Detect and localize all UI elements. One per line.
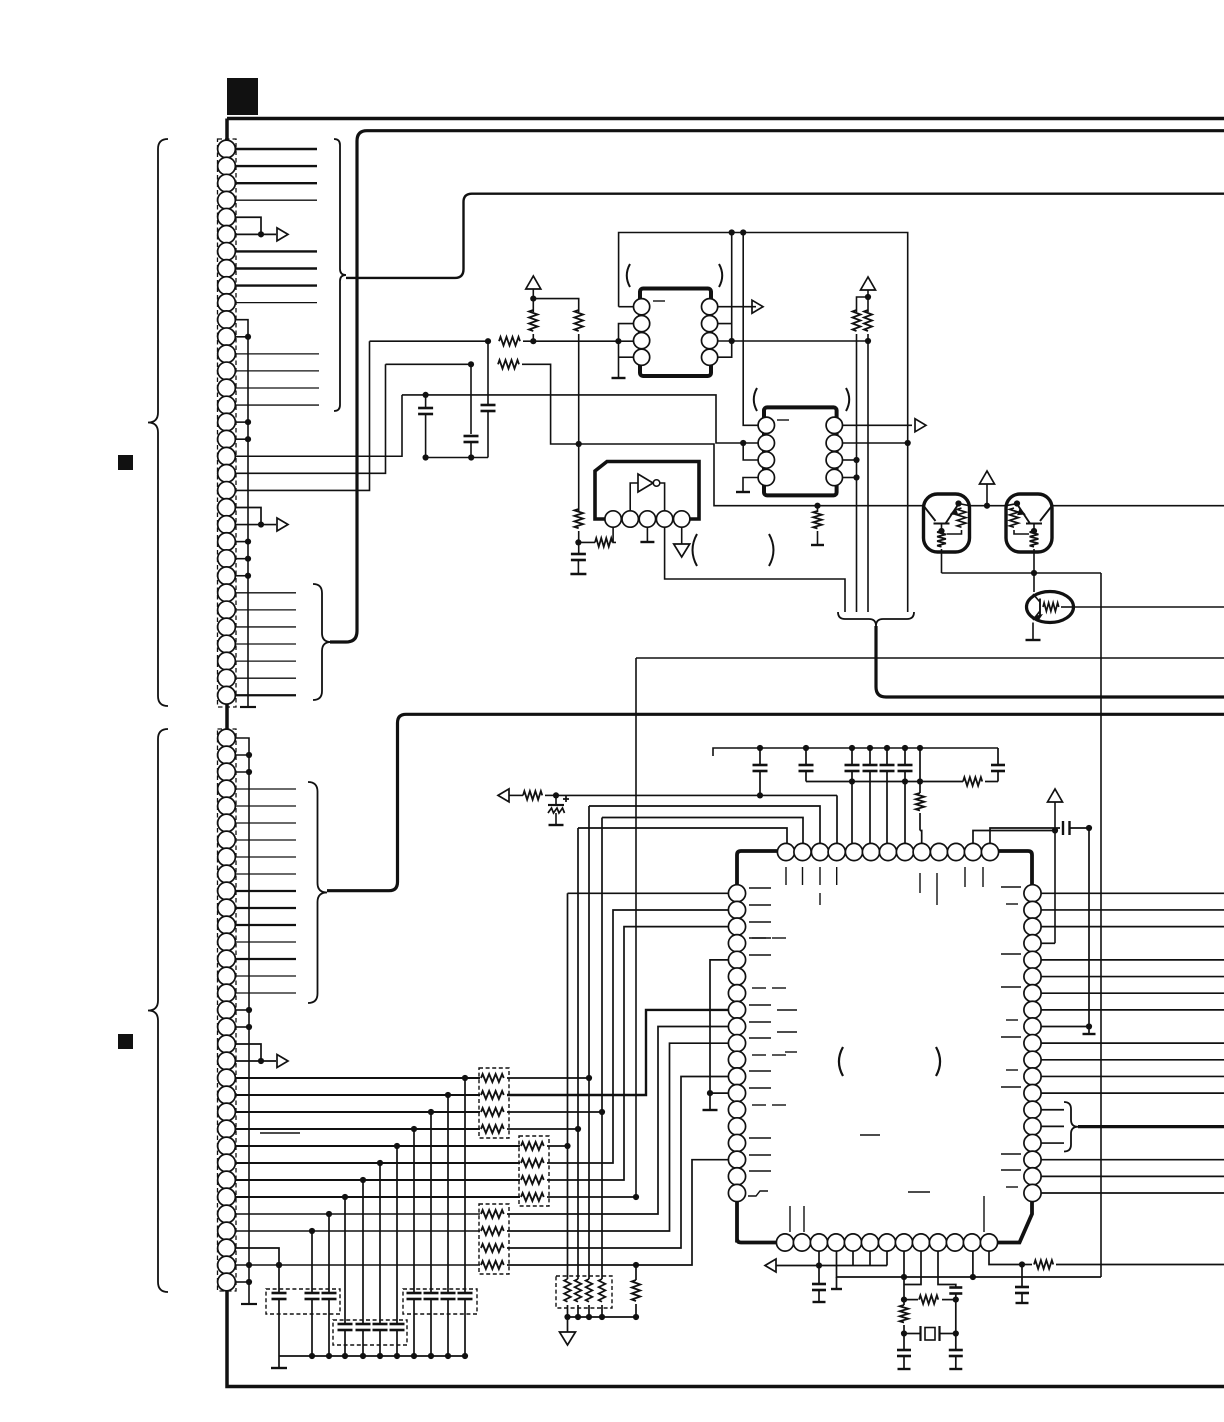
microcontroller U1 body bbox=[737, 851, 1032, 1243]
net N658 wire bbox=[636, 657, 1224, 659]
reset IC X1 package bbox=[595, 462, 699, 520]
CN1 pin2 wire bbox=[235, 165, 317, 167]
CN1 pin11/12 tie, vertical rail to terminator bbox=[235, 320, 248, 707]
cap bank CB1 (dashed) bbox=[266, 1289, 340, 1314]
power flag V2 bbox=[861, 277, 876, 290]
ground arrow G7 bbox=[674, 544, 690, 557]
CN1 pin1 wire bbox=[235, 148, 317, 150]
ground G8 bbox=[811, 544, 824, 546]
transistor Q1 (digital) bbox=[924, 494, 970, 552]
CN2 pin7 wire bbox=[235, 839, 296, 841]
oscillator left rail (pin8) bbox=[903, 1251, 905, 1300]
RN3 output wires bbox=[507, 1027, 729, 1215]
crystal X2 bbox=[904, 1333, 920, 1335]
capacitor x=465 bbox=[464, 1078, 466, 1293]
IC1 pin3R net to resistor pair bbox=[718, 340, 868, 342]
arrow A1 (ref out) bbox=[765, 1259, 776, 1272]
capacitor C3 bbox=[571, 553, 586, 556]
brace CN1 sub-group B bbox=[313, 584, 331, 700]
wire U1 right pin10 bbox=[1041, 1042, 1224, 1044]
wire V1 to R4 bbox=[533, 299, 578, 312]
page border bbox=[227, 119, 1224, 1387]
ground G6 bbox=[640, 541, 654, 543]
IC2 pin3R wire bbox=[843, 459, 857, 461]
wire CN2 row y=1129 bbox=[235, 1128, 480, 1130]
wire CN2 pin31 row to cap rail bbox=[235, 1248, 279, 1265]
U1 pin9 jog bbox=[904, 1251, 921, 1285]
wire CN2 row y=1146 bbox=[235, 1145, 520, 1147]
IC1 output arrow bbox=[718, 306, 756, 308]
wire U1 right pin11 bbox=[1041, 1059, 1224, 1061]
wire CN2 row y=1180 bbox=[235, 1179, 520, 1181]
wire U1 right pin3 bbox=[1041, 926, 1224, 928]
ground G2 bbox=[278, 1356, 280, 1368]
bold bus from BR1 bbox=[1078, 1125, 1224, 1128]
wire CN2 row y=1197 bbox=[235, 1196, 520, 1198]
CN1 pin13 wire bbox=[235, 353, 319, 355]
IC1 pins left bbox=[634, 299, 650, 315]
IC2 label parens bbox=[754, 388, 757, 411]
U1 pin12 lead bbox=[972, 1251, 974, 1277]
resistor network RN1 (dashed) bbox=[479, 1068, 509, 1138]
wire top pin9 bbox=[920, 831, 922, 844]
ground G12 bbox=[1088, 1027, 1090, 1034]
wire CN2 row y=1214 bbox=[235, 1213, 480, 1215]
wire U1 right pin7 bbox=[1041, 992, 1224, 994]
resistor R3 bbox=[529, 310, 538, 331]
wire U1 right pin2 bbox=[1041, 909, 1224, 911]
capacitor x=448 bbox=[447, 1095, 449, 1293]
cap bank common bus bbox=[279, 1355, 465, 1357]
net x636 vertical bbox=[635, 658, 637, 1197]
ground G13 bbox=[813, 1301, 826, 1303]
IC2 pin2R wire bbox=[843, 442, 908, 444]
section marker square 2 bbox=[118, 1034, 133, 1049]
IC2 pin4R wire bbox=[843, 477, 857, 479]
wire CN1 pin21 to net N341 bbox=[235, 341, 370, 490]
connector CN2 dashed outline bbox=[218, 729, 237, 1291]
U1 left pins bbox=[728, 885, 745, 902]
CN2 pin9 wire bbox=[235, 873, 296, 875]
capacitor x=363 bbox=[362, 1180, 364, 1324]
X1 output wire to QFP region bbox=[665, 527, 845, 612]
CN2 pin12 wire bbox=[235, 924, 296, 926]
wire CN2 row y=1163 bbox=[235, 1162, 520, 1164]
IC2 pin4 ground bbox=[743, 478, 758, 493]
ground G14 bbox=[898, 1368, 911, 1370]
resistor R2 bbox=[498, 360, 519, 369]
wire U1 right pin12 bbox=[1041, 1075, 1224, 1077]
CN1 pin27 wire bbox=[235, 592, 296, 594]
wire CN2 row y=1078 bbox=[235, 1077, 480, 1079]
connector CN2 pins bbox=[218, 729, 236, 747]
op-amp IC1 package bbox=[640, 289, 711, 377]
brace CN2 sub-group (to bus B3) bbox=[308, 782, 327, 1003]
resistor R7 bbox=[864, 310, 872, 331]
electrolytic capacitor C4 bbox=[555, 795, 557, 805]
CN2 pin6 wire bbox=[235, 822, 296, 824]
CN1 pin22/23 strap to test point arrow bbox=[235, 507, 276, 524]
wire CN1 pin20 to net N364 bbox=[235, 364, 386, 473]
wire U1 right pin8 bbox=[1041, 1009, 1224, 1011]
net N795 (ref) arrow+resistor bbox=[498, 789, 509, 802]
Q3 emitter ground bbox=[1032, 623, 1034, 641]
CN1 pin17 stub bbox=[235, 421, 248, 423]
sheet index black square bbox=[227, 78, 258, 115]
CN1 pin14 wire bbox=[235, 370, 319, 372]
ground stub G18 bbox=[836, 1277, 838, 1288]
section marker square 1 bbox=[118, 455, 133, 470]
ground G5 bbox=[736, 491, 750, 493]
CN1 pin26 stub bbox=[235, 575, 248, 577]
wire CN2 row y=1095 bbox=[235, 1094, 480, 1096]
capacitor C1 bbox=[487, 341, 489, 405]
brace CN1 sub-group A bbox=[334, 139, 346, 411]
capacitor x=380 bbox=[379, 1163, 381, 1324]
X1 label parens bbox=[693, 534, 697, 566]
brace CN2 group (left) bbox=[148, 729, 168, 1292]
CN1 pin3 wire bbox=[235, 182, 317, 184]
wire U1 right pin6 bbox=[1041, 976, 1224, 978]
wire V4 to right pin4 bbox=[1041, 942, 1055, 944]
RN1 output wires bbox=[507, 1077, 589, 1079]
RN4 common bus and ground bbox=[568, 1304, 637, 1317]
capacitor C12 bbox=[990, 828, 1060, 843]
under-brace BU1 (4 nets) bbox=[838, 612, 914, 626]
wire RN1-B to IC pin (bold) bbox=[507, 1010, 729, 1095]
Q1 base wire bbox=[941, 552, 943, 573]
CN1 pin33 wire bbox=[235, 694, 296, 696]
CN2 pin15 wire bbox=[235, 975, 296, 977]
resistor network RN3 (dashed) bbox=[479, 1204, 509, 1274]
wire U1 right pin13 bbox=[1041, 1092, 1224, 1094]
U1 top pins bbox=[777, 843, 794, 860]
X1 pin4 from inverter output bbox=[660, 483, 665, 511]
ground G4 bbox=[612, 377, 626, 379]
ground G10 bbox=[549, 824, 564, 826]
capacitor C14 bbox=[903, 1334, 905, 1351]
capacitor x=414 bbox=[413, 1129, 415, 1293]
capacitor x=329 bbox=[328, 1214, 330, 1293]
U1 right pins bbox=[1024, 885, 1041, 902]
wire U1 right pin18 bbox=[1041, 1175, 1224, 1177]
op-amp IC2 package bbox=[764, 407, 837, 495]
resistor R20 bbox=[635, 1265, 637, 1280]
resistor network RN2 (dashed) bbox=[519, 1136, 549, 1206]
bus wire net B2 (thin, from CN1 brace A) bbox=[346, 194, 1224, 278]
bus wire net B3 (thick, from CN2 brace) bbox=[327, 714, 1224, 890]
wire U1 right pin9 to ground bbox=[1041, 1026, 1089, 1028]
CN2 pin10 wire bbox=[235, 890, 296, 892]
CN2 pins1-3 tie rail R (to terminator) bbox=[235, 738, 249, 1304]
power flag V3 bbox=[980, 471, 995, 484]
CN2 pin16 wire bbox=[235, 992, 296, 994]
brace CN1 group (left) bbox=[148, 139, 168, 706]
wire CN2 row y=1265 bbox=[235, 1264, 480, 1266]
CN1 pin32 wire bbox=[235, 677, 296, 679]
net N364 input wire bbox=[386, 363, 472, 365]
pull-up rail verticals to QFP bbox=[568, 893, 730, 1279]
CN1 pin24 stub bbox=[235, 541, 248, 543]
CN2 pin13 wire bbox=[235, 941, 296, 943]
IC1 pin2R feedback drop bbox=[718, 233, 732, 324]
base bus wire bbox=[942, 572, 1102, 574]
ground G3 bbox=[570, 573, 586, 575]
CN1 pin8 wire bbox=[235, 267, 317, 269]
CN2 pin19/20 strap to test point arrow bbox=[235, 1044, 276, 1061]
CN2 pin33 stub bbox=[235, 1281, 249, 1283]
wire U1 right pin1 bbox=[1041, 892, 1224, 894]
capacitor C x=905 bbox=[902, 745, 908, 751]
ground arrow G1 bbox=[567, 1317, 569, 1332]
U1 bottom pins bbox=[776, 1234, 793, 1251]
connector CN1 pins bbox=[218, 140, 236, 158]
resistor R13 bbox=[904, 1299, 918, 1301]
CN1 pin15 wire bbox=[235, 387, 319, 389]
CN1 pin28 wire bbox=[235, 609, 296, 611]
wire CN2 row y=1231 bbox=[235, 1230, 480, 1232]
net N457 bus bbox=[426, 457, 488, 459]
net N394 wire to IC2 bbox=[402, 395, 743, 443]
CN1 pin25 stub bbox=[235, 558, 248, 560]
CN1 pin4 wire bbox=[235, 199, 317, 201]
capacitor C15a (rail) bbox=[949, 1286, 962, 1289]
X1 pin5 ground arrow bbox=[681, 527, 683, 544]
resistor R1 bbox=[499, 337, 520, 346]
capacitor C13 bbox=[818, 1266, 820, 1285]
U1 pin number dashes bbox=[785, 867, 787, 885]
connector CN1 dashed outline bbox=[218, 139, 237, 707]
CN1 pin29 wire bbox=[235, 626, 296, 628]
ground G15 bbox=[949, 1368, 962, 1370]
Q2 base wire bbox=[1033, 552, 1035, 573]
U1 bottom pin5/6 stubs bbox=[852, 1251, 854, 1266]
capacitor x=431 bbox=[430, 1112, 432, 1293]
resistor R12 bbox=[919, 782, 921, 794]
IC1 pin2 wire bbox=[619, 324, 634, 378]
wire net N505 (bias to Q1) bbox=[579, 444, 924, 506]
capacitor C11 bbox=[997, 748, 999, 765]
resistor R11 bbox=[963, 777, 982, 786]
capacitor C15 bbox=[955, 1334, 957, 1351]
wire U1 right pin19 bbox=[1041, 1192, 1224, 1194]
IC2 pins left bbox=[758, 417, 774, 433]
IC2 pin2/3 input node bbox=[740, 440, 746, 446]
resistor R15 bbox=[1022, 1264, 1032, 1266]
U1 label parens bbox=[839, 1047, 843, 1076]
Q3 base wire to right edge bbox=[1074, 606, 1224, 608]
IC2 output arrow bbox=[843, 424, 913, 426]
cap bank CB3 (dashed) bbox=[403, 1289, 477, 1314]
resistor bank RN4 (dashed) bbox=[556, 1276, 612, 1308]
ground G11 bbox=[703, 1109, 718, 1111]
ground G16 bbox=[1016, 1302, 1029, 1304]
cap bank CB2 (dashed) bbox=[333, 1320, 407, 1345]
wire U1 right pin17 bbox=[1041, 1159, 1224, 1161]
capacitor C x=887 bbox=[884, 745, 890, 751]
brace BR1 pins14-16 bbox=[1064, 1102, 1078, 1152]
wire CN2 row y=1112 bbox=[235, 1111, 480, 1113]
wire CN1 pin19 to net N394 bbox=[235, 395, 402, 456]
resistor R6 bbox=[857, 297, 869, 312]
capacitor C0 bbox=[423, 392, 429, 398]
resistor R5 bbox=[578, 444, 580, 511]
CN1 pin30 wire bbox=[235, 643, 296, 645]
power flag V4 bbox=[1048, 789, 1063, 802]
CN2 pin17 stub bbox=[235, 1009, 249, 1011]
IC1 feedback loop wire bbox=[619, 233, 908, 613]
thick net from BU1 bbox=[876, 626, 1224, 697]
IC2 pins right bbox=[826, 417, 842, 433]
CN2 pin8 wire bbox=[235, 856, 296, 858]
net N1264 with R15 bbox=[989, 1251, 1022, 1265]
transistor Q2 (digital) bbox=[1006, 494, 1052, 552]
capacitor x=312 bbox=[311, 1231, 313, 1293]
resistor R14 bbox=[903, 1300, 905, 1305]
CN2 pin4 wire bbox=[235, 788, 296, 790]
capacitor C x=806 bbox=[803, 745, 809, 751]
CN1 pin10 wire bbox=[235, 302, 317, 304]
capacitor C x=760 bbox=[759, 748, 761, 765]
RN2 output wires bbox=[547, 1145, 568, 1147]
U1 top decoupling bus bbox=[713, 748, 998, 756]
wire V4 to top pin12 bbox=[973, 831, 1055, 844]
resistor R8 bbox=[595, 538, 613, 547]
wire Q2 to right edge bbox=[1052, 505, 1224, 507]
IC1 pins right bbox=[702, 299, 718, 315]
resistor R10 bbox=[523, 791, 542, 800]
CN1 pin16 wire bbox=[235, 404, 319, 406]
CN2 pin11 wire bbox=[235, 907, 296, 909]
capacitor C x=852 bbox=[849, 745, 855, 751]
resistor R4 bbox=[574, 310, 583, 331]
oscillator bus N1277 bbox=[837, 1251, 1102, 1277]
capacitor C16 bbox=[1021, 1265, 1023, 1288]
CN2 pin14 wire bbox=[235, 958, 296, 960]
transistor Q3 (digital, horizontal) bbox=[1033, 573, 1035, 592]
top cap lower bus bbox=[759, 771, 761, 795]
CN1 pin7 wire bbox=[235, 250, 317, 252]
X1 pin1 bias network bbox=[613, 527, 616, 542]
CN2 pin5 wire bbox=[235, 805, 296, 807]
CN1 pin9 wire bbox=[235, 284, 317, 286]
IC1 label parens bbox=[627, 264, 630, 287]
wire Q1-Q2 bbox=[970, 505, 1007, 507]
IC1 pin4R tie bbox=[718, 341, 732, 357]
capacitor x=345 bbox=[344, 1197, 346, 1324]
capacitor C2 bbox=[470, 364, 472, 434]
X1 pin3 ground bbox=[646, 527, 648, 542]
ground G9 bbox=[1026, 639, 1041, 641]
bus wire net B1 (thick, top) bbox=[330, 131, 1224, 642]
X1 inverter symbol bbox=[638, 474, 653, 492]
CN1 pin5/6 strap to test point arrow bbox=[235, 217, 276, 234]
IC1 pin4 wire bbox=[619, 356, 634, 358]
capacitor C x=870 bbox=[867, 745, 873, 751]
CN2 pin18 stub bbox=[235, 1026, 249, 1028]
U1 right pins14-16 stubs bbox=[1041, 1109, 1064, 1111]
CN1 pin31 wire bbox=[235, 660, 296, 662]
U1 left pin5/13 ground rail bbox=[710, 960, 729, 1110]
X1 pin2 to inverter input bbox=[630, 483, 638, 511]
U1 pin10 jog to right rail bbox=[938, 1251, 956, 1288]
wire U1 right pin5 bbox=[1041, 959, 1224, 961]
IC2 pin1 wire from loop bbox=[743, 233, 758, 426]
X1 pins bbox=[605, 511, 621, 527]
capacitor x=397 bbox=[396, 1146, 398, 1324]
power flag V1 bbox=[526, 276, 541, 289]
net N341 input wire bbox=[370, 340, 489, 342]
resistor R9 bbox=[817, 506, 819, 512]
CN1 pin18 stub bbox=[235, 438, 248, 440]
capacitor x=279 bbox=[278, 1265, 280, 1293]
